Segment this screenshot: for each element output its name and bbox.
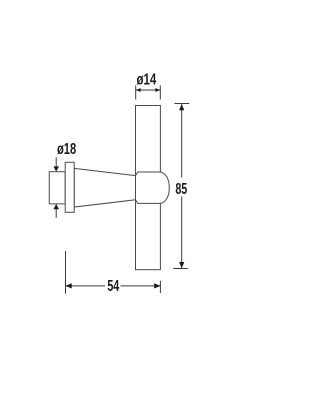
svg-text:ø14: ø14 (136, 69, 156, 87)
svg-text:ø18: ø18 (57, 139, 77, 158)
svg-text:85: 85 (175, 180, 187, 198)
svg-text:54: 54 (107, 277, 119, 295)
